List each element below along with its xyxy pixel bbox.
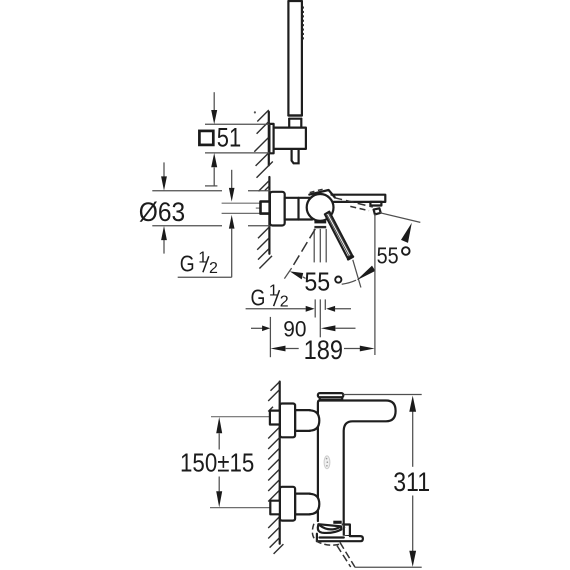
dim 51: extension lines (205, 123, 269, 125)
lever leader line (353, 260, 361, 288)
lever end cap (348, 257, 353, 260)
svg-text:2: 2 (209, 260, 218, 277)
bottom inlet: union nut (280, 487, 295, 521)
wall (top) (268, 112, 270, 165)
holder wall plate (269, 124, 273, 153)
wall (bottom) (279, 382, 281, 544)
spray nubs (302, 7, 304, 40)
top inlet: cylinder (295, 410, 310, 431)
wall hatching (bottom) (268, 382, 283, 554)
G1/2 pipe thread lines (222, 202, 261, 204)
diverter cup (318, 524, 342, 533)
svg-text:Ø63: Ø63 (139, 197, 185, 227)
swung mousseur flag (374, 208, 381, 214)
Ø63 extension lines (152, 191, 270, 226)
speck (254, 111, 256, 113)
svg-text:G: G (251, 285, 266, 311)
lever base wedge (309, 190, 335, 198)
svg-text:311: 311 (393, 467, 430, 497)
holder bar (317, 534, 363, 542)
top inlet: dome (310, 410, 320, 430)
mixer body + spout (318, 401, 396, 525)
dim 311 extension line (343, 394, 421, 396)
body tube (285, 198, 313, 220)
holder bracket (274, 128, 306, 149)
dim 51: top arrow (213, 92, 215, 110)
outlet extension lines (314, 229, 326, 337)
dim 51: stop tick (205, 185, 217, 187)
pipe nipple (261, 202, 270, 214)
lever angle arc right (342, 280, 356, 284)
handle lower grip (289, 119, 301, 128)
dim 150+-15 arrows (218, 433, 220, 449)
diverter clamp (black) (333, 521, 341, 524)
top inlet: union nut (280, 404, 295, 438)
solid lever (325, 212, 352, 258)
wall extension line (90/189) (269, 317, 271, 357)
lever angle arc left (290, 271, 303, 279)
cup inner rim (320, 525, 340, 529)
svg-text:55: 55 (304, 268, 330, 296)
bottom inlet: dome (310, 494, 320, 514)
square symbol (199, 131, 213, 145)
svg-text:2: 2 (280, 293, 289, 310)
shower hook tab (344, 525, 350, 537)
wall hatching (top) (254, 110, 272, 178)
dim 90 (251, 327, 263, 329)
G1/2 arrows at pipe (231, 170, 233, 189)
dim 311 (412, 412, 414, 467)
dashed alternate diverter outline (342, 524, 345, 529)
escutcheon flange (270, 192, 285, 226)
Ø63 arrows (163, 162, 165, 176)
svg-text:51: 51 (217, 122, 241, 152)
G1/2 leader underline (178, 276, 232, 278)
top inlet: wall pipe (270, 411, 280, 425)
svg-text:G: G (180, 251, 195, 277)
55 deg (spout) arrowhead (401, 223, 412, 243)
dim 51: bottom arrow (213, 168, 215, 186)
spout (plan) (332, 195, 386, 202)
hand shower handle (288, 1, 302, 116)
svg-text:189: 189 (304, 335, 344, 365)
inclined reference line (380, 213, 421, 223)
wall hatching (middle) (257, 180, 272, 268)
floor reference line (355, 566, 422, 568)
wall (middle) (268, 177, 270, 254)
bottom inlet: wall pipe (270, 501, 280, 515)
pipe nipple centre tick (256, 207, 262, 209)
spout tip extension line (374, 214, 376, 355)
dim 150 extension lines (211, 416, 270, 418)
wedge dashes (310, 191, 315, 192)
lever cap (318, 393, 343, 397)
outlet stack under ball (314, 221, 326, 224)
svg-text:150±15: 150±15 (180, 450, 254, 478)
bottom inlet: cylinder (295, 494, 310, 515)
dashed lever (alternate position) (292, 229, 316, 268)
svg-text:55: 55 (377, 242, 399, 268)
GROHE logo smudge (324, 456, 330, 469)
dim 189 (271, 346, 286, 352)
dashed hand shower (340, 542, 355, 567)
G1/2 outlet dim arrows (246, 308, 306, 310)
hose nipple (292, 149, 299, 163)
swung spout dashed axis (334, 198, 373, 207)
tube division (297, 198, 299, 220)
mousseur (370, 202, 381, 206)
ball joint (307, 194, 334, 221)
handle band (288, 114, 302, 116)
